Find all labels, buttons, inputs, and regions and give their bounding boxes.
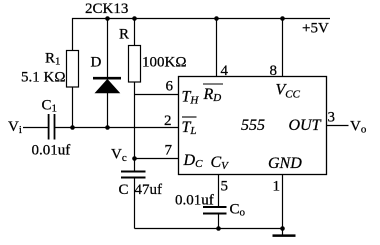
svg-text:5.1 KΩ: 5.1 KΩ <box>21 70 65 86</box>
wire R top segment <box>134 19 136 46</box>
wire pin 6 <box>135 94 179 96</box>
wire pin 5 <box>218 175 220 207</box>
capacitor C1 plates <box>49 114 55 140</box>
node diode top <box>105 16 110 21</box>
svg-text:Vc: Vc <box>111 147 127 165</box>
wire bottom rail <box>135 228 283 230</box>
svg-text:VCC: VCC <box>276 82 301 101</box>
diode D <box>93 78 121 93</box>
wire pin 4 <box>216 19 218 77</box>
svg-text:DC: DC <box>183 152 204 170</box>
wire top +5V rail <box>73 19 331 51</box>
svg-text:3: 3 <box>328 110 336 126</box>
svg-text:Co: Co <box>230 202 246 219</box>
node pin 8 top <box>280 16 285 21</box>
capacitor Co plates <box>203 207 227 214</box>
wire capacitor Co bottom <box>218 214 220 229</box>
svg-text:D: D <box>91 55 102 71</box>
svg-text:R1: R1 <box>45 51 61 68</box>
node pin 4 top <box>214 16 219 21</box>
svg-text:TL: TL <box>182 119 197 137</box>
wire pin 1 to ground <box>282 175 284 235</box>
wire C1 to pin 2 <box>55 127 179 129</box>
node Co bottom <box>216 226 221 231</box>
svg-text:C: C <box>119 182 129 198</box>
svg-text:100KΩ: 100KΩ <box>142 55 186 71</box>
svg-text:6: 6 <box>166 79 174 95</box>
svg-text:+5V: +5V <box>302 21 329 37</box>
svg-text:4: 4 <box>221 63 229 79</box>
wire diode bottom segment <box>107 93 109 128</box>
node diode bottom <box>105 125 110 130</box>
svg-text:5: 5 <box>221 179 229 195</box>
svg-text:GND: GND <box>268 155 302 172</box>
svg-text:0.01uf: 0.01uf <box>175 193 214 209</box>
wire pin 8 <box>282 19 284 77</box>
svg-text:47uf: 47uf <box>135 182 163 198</box>
svg-text:CV: CV <box>211 154 230 172</box>
svg-text:R: R <box>119 27 129 43</box>
label RD with overline <box>203 83 223 85</box>
svg-text:Vo: Vo <box>350 119 367 136</box>
ground symbol <box>273 234 296 237</box>
svg-text:C1: C1 <box>42 98 58 115</box>
wire capacitor C bottom <box>134 178 136 229</box>
node R top <box>132 16 137 21</box>
svg-text:2CK13: 2CK13 <box>85 1 128 17</box>
svg-text:OUT: OUT <box>289 117 322 134</box>
node ground <box>280 226 285 231</box>
wire diode top segment <box>107 19 109 79</box>
wire pin 3 output <box>327 125 349 127</box>
IC 555 box <box>179 77 327 175</box>
label TL with overline <box>182 116 197 118</box>
node Vc <box>132 156 137 161</box>
svg-text:Vi: Vi <box>8 119 22 136</box>
wire R1 bottom segment <box>72 87 74 128</box>
svg-text:555: 555 <box>241 117 265 134</box>
svg-text:7: 7 <box>165 143 173 159</box>
svg-text:8: 8 <box>270 63 278 79</box>
svg-text:TH: TH <box>182 89 200 107</box>
svg-text:2: 2 <box>164 113 172 129</box>
resistor R1 <box>67 51 79 88</box>
resistor R <box>129 46 141 83</box>
svg-text:RD: RD <box>203 86 222 104</box>
capacitor C plates <box>121 172 146 178</box>
svg-text:1: 1 <box>273 179 281 195</box>
node R1 bottom <box>70 125 75 130</box>
svg-text:0.01uf: 0.01uf <box>32 143 71 159</box>
wire Vi input segment <box>23 127 49 129</box>
wire pin 7 <box>135 158 179 160</box>
wire R bottom to capacitor C <box>134 82 136 172</box>
